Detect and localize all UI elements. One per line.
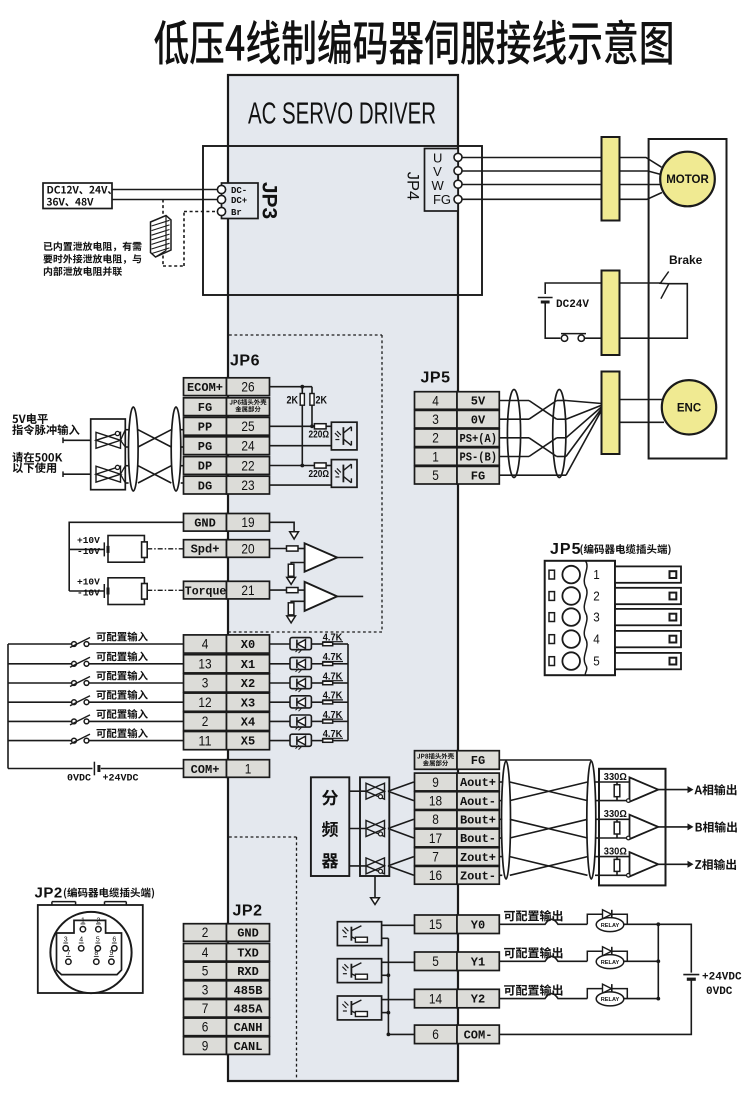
svg-text:X4: X4 [241, 716, 255, 730]
svg-text:13: 13 [198, 656, 211, 672]
svg-text:Aout-: Aout- [460, 795, 496, 809]
svg-text:RELAY: RELAY [601, 923, 620, 929]
svg-text:GND: GND [194, 517, 216, 531]
svg-text:1: 1 [245, 761, 252, 777]
svg-text:2: 2 [202, 924, 209, 940]
svg-text:220Ω: 220Ω [309, 469, 330, 480]
svg-text:JP4: JP4 [403, 172, 421, 200]
svg-text:2: 2 [593, 589, 600, 604]
svg-text:JP2: JP2 [35, 885, 63, 902]
svg-text:Y2: Y2 [471, 993, 485, 1007]
svg-text:FG: FG [198, 401, 212, 415]
svg-text:JP5: JP5 [550, 541, 581, 558]
svg-text:FG: FG [433, 192, 451, 207]
svg-text:JP6: JP6 [230, 352, 260, 369]
svg-text:FG: FG [471, 469, 485, 483]
svg-text:3: 3 [432, 411, 439, 427]
svg-text:22: 22 [241, 457, 254, 473]
svg-text:5: 5 [432, 467, 439, 483]
svg-text:220Ω: 220Ω [309, 430, 330, 441]
svg-text:2K: 2K [316, 395, 328, 407]
svg-text:25: 25 [241, 418, 254, 434]
svg-text:JP5: JP5 [421, 370, 451, 387]
svg-text:2: 2 [202, 713, 209, 729]
svg-text:Torque: Torque [185, 584, 227, 598]
svg-text:2K: 2K [287, 395, 299, 407]
svg-text:23: 23 [241, 477, 254, 493]
svg-text:X0: X0 [241, 638, 255, 652]
svg-text:330Ω: 330Ω [604, 771, 627, 783]
svg-text:19: 19 [241, 514, 254, 530]
svg-text:FG: FG [471, 754, 485, 768]
svg-text:4: 4 [202, 636, 209, 652]
svg-text:Bout-: Bout- [460, 832, 496, 846]
svg-text:5: 5 [202, 963, 209, 979]
svg-text:DC-: DC- [231, 186, 247, 196]
svg-text:1: 1 [432, 448, 439, 464]
svg-text:3: 3 [202, 675, 209, 691]
svg-text:7: 7 [202, 1000, 209, 1016]
svg-text:COM+: COM+ [191, 763, 220, 777]
svg-text:18: 18 [429, 792, 442, 808]
svg-text:Brake: Brake [669, 253, 703, 267]
svg-text:485B: 485B [234, 984, 263, 998]
svg-text:X2: X2 [241, 677, 255, 691]
svg-text:20: 20 [241, 540, 254, 556]
svg-text:RELAY: RELAY [601, 960, 620, 966]
svg-text:DC24V: DC24V [556, 299, 589, 311]
svg-text:DP: DP [198, 460, 212, 474]
svg-text:Br: Br [231, 208, 242, 218]
svg-text:-10V: -10V [77, 588, 100, 599]
svg-text:ECOM+: ECOM+ [187, 381, 223, 395]
svg-text:+24VDC: +24VDC [702, 972, 742, 984]
svg-text:15: 15 [429, 916, 442, 932]
svg-text:6: 6 [202, 1019, 209, 1035]
svg-text:V: V [433, 164, 442, 179]
svg-text:Zout-: Zout- [460, 870, 496, 884]
svg-text:12: 12 [198, 694, 211, 710]
svg-text:X1: X1 [241, 658, 255, 672]
svg-text:0VDC: 0VDC [706, 986, 733, 998]
svg-text:0VDC: 0VDC [67, 773, 91, 784]
svg-text:TXD: TXD [237, 947, 259, 961]
svg-text:PS+(A): PS+(A) [460, 432, 498, 446]
svg-text:MOTOR: MOTOR [666, 174, 709, 186]
svg-text:4: 4 [432, 392, 439, 408]
svg-text:4: 4 [593, 632, 600, 647]
svg-text:330Ω: 330Ω [604, 846, 627, 858]
svg-text:4: 4 [202, 944, 209, 960]
svg-text:GND: GND [237, 927, 259, 941]
svg-text:Spd+: Spd+ [191, 543, 220, 557]
svg-text:+10V: +10V [77, 577, 100, 588]
svg-text:9: 9 [432, 774, 439, 790]
svg-text:AC SERVO DRIVER: AC SERVO DRIVER [248, 96, 436, 131]
svg-text:8: 8 [432, 811, 439, 827]
svg-text:7: 7 [432, 848, 439, 864]
svg-text:16: 16 [429, 867, 442, 883]
svg-text:RELAY: RELAY [601, 997, 620, 1003]
svg-text:PG: PG [198, 440, 212, 454]
svg-text:Bout+: Bout+ [460, 814, 496, 828]
svg-text:DC+: DC+ [231, 196, 247, 206]
svg-text:26: 26 [241, 379, 254, 395]
svg-text:11: 11 [198, 732, 211, 748]
svg-text:21: 21 [241, 582, 254, 598]
svg-text:COM-: COM- [464, 1029, 493, 1043]
svg-text:CANL: CANL [234, 1040, 263, 1054]
svg-text:CANH: CANH [234, 1021, 263, 1035]
svg-text:X5: X5 [241, 735, 255, 749]
svg-text:X3: X3 [241, 696, 255, 710]
svg-text:0V: 0V [471, 413, 486, 427]
svg-text:24: 24 [241, 438, 254, 454]
svg-text:5V: 5V [471, 395, 486, 409]
svg-text:3: 3 [202, 981, 209, 997]
svg-text:JP3: JP3 [258, 182, 281, 219]
svg-text:Y0: Y0 [471, 918, 485, 932]
svg-text:JP2: JP2 [233, 903, 263, 920]
svg-text:Zout+: Zout+ [460, 851, 496, 865]
svg-text:5: 5 [432, 953, 439, 969]
svg-text:330Ω: 330Ω [604, 808, 627, 820]
svg-text:2: 2 [432, 430, 439, 446]
svg-text:Y1: Y1 [471, 955, 485, 969]
svg-text:RXD: RXD [237, 965, 259, 979]
svg-text:W: W [432, 178, 445, 193]
svg-text:DG: DG [198, 479, 212, 493]
svg-text:1: 1 [593, 567, 600, 582]
svg-text:17: 17 [429, 830, 442, 846]
svg-text:3: 3 [593, 610, 600, 625]
svg-text:PS-(B): PS-(B) [460, 451, 498, 465]
svg-text:ENC: ENC [677, 402, 701, 414]
svg-text:5: 5 [593, 654, 600, 669]
svg-text:-10V: -10V [77, 546, 100, 557]
svg-text:485A: 485A [234, 1003, 264, 1017]
svg-text:6: 6 [432, 1026, 439, 1042]
svg-text:+24VDC: +24VDC [103, 773, 139, 784]
svg-text:9: 9 [202, 1037, 209, 1053]
svg-text:Aout+: Aout+ [460, 776, 496, 790]
svg-text:PP: PP [198, 421, 212, 435]
svg-text:14: 14 [429, 990, 442, 1006]
svg-text:+10V: +10V [77, 535, 100, 546]
